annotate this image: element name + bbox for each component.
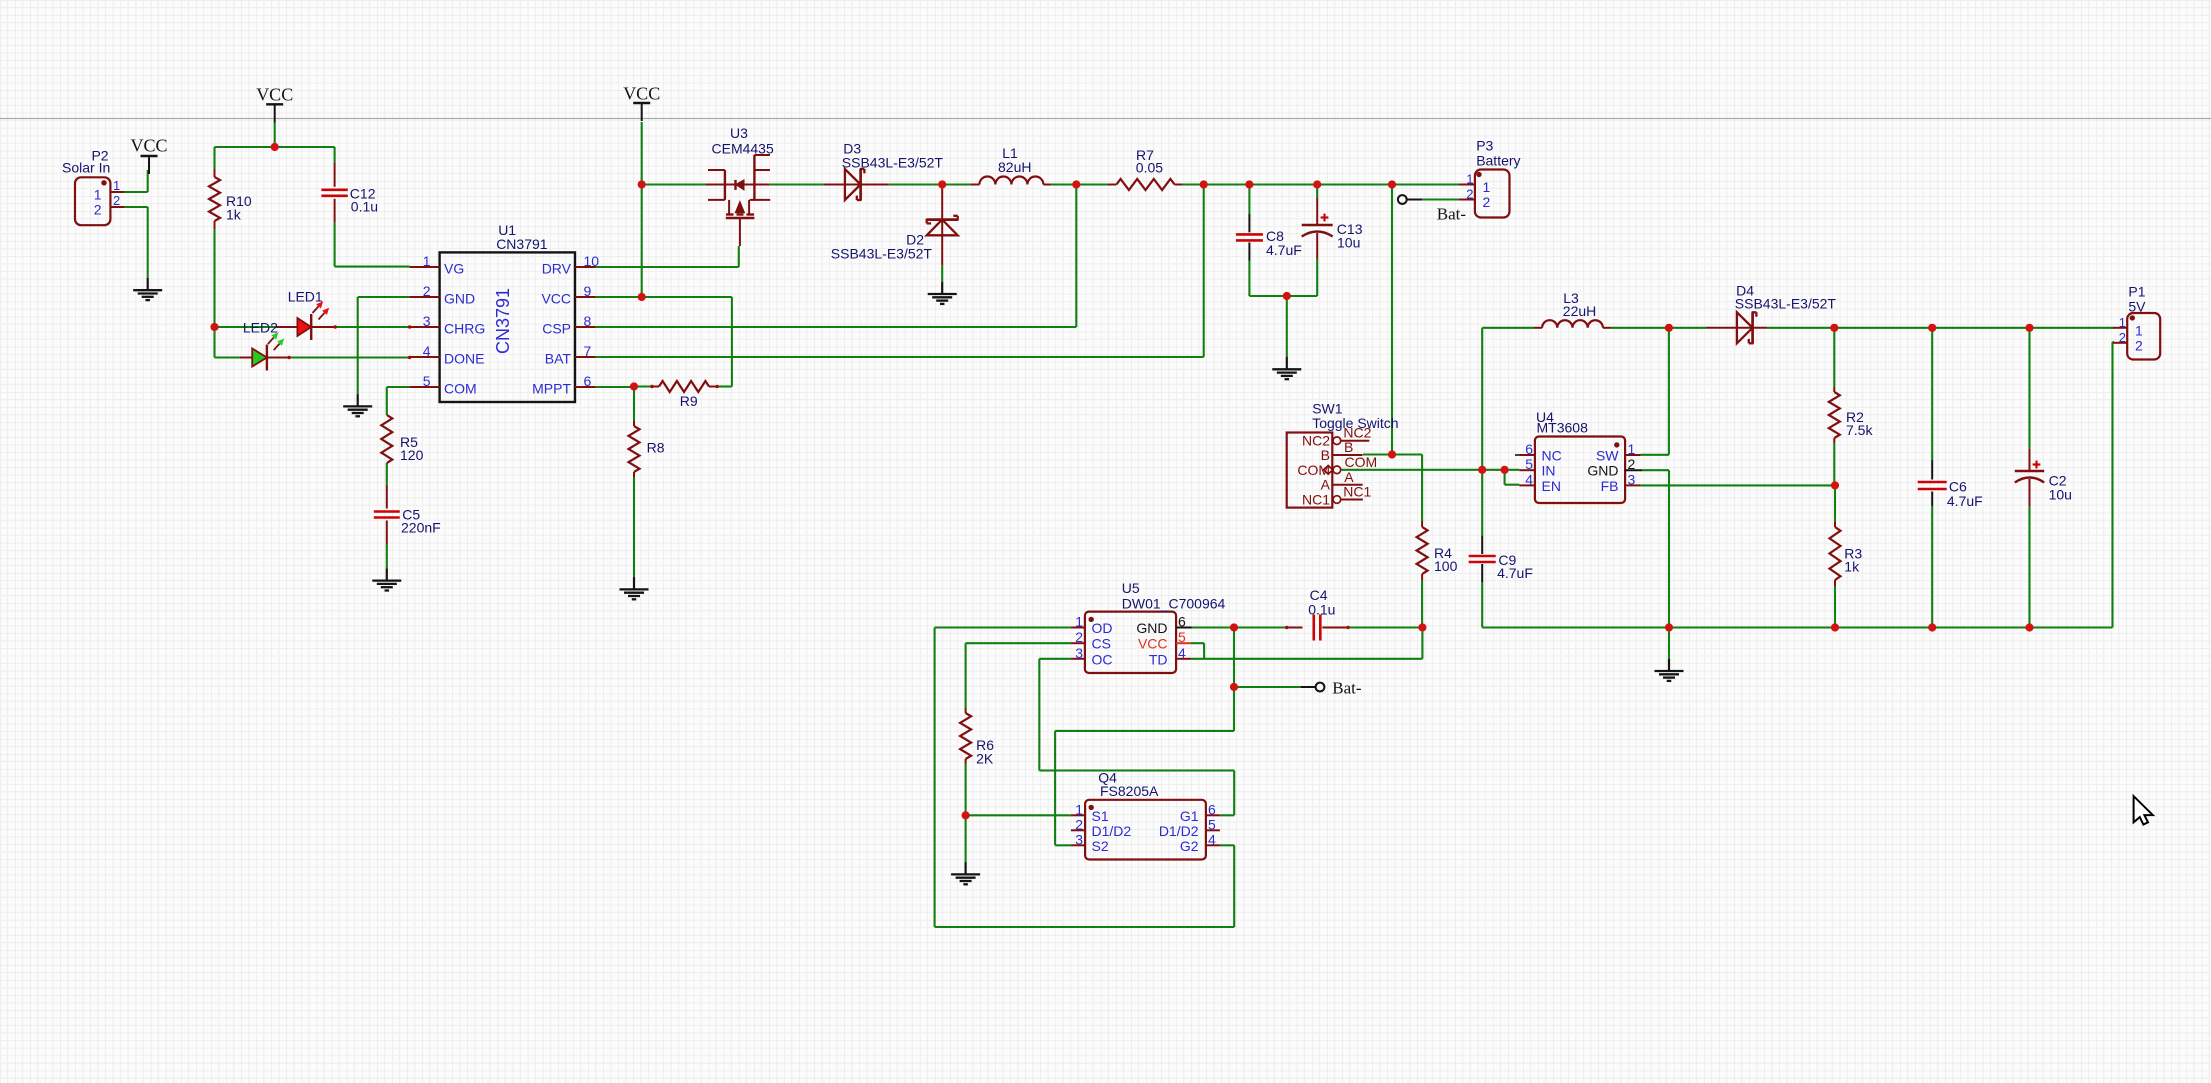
svg-text:5V: 5V	[2128, 299, 2146, 315]
svg-text:2: 2	[1628, 456, 1636, 472]
svg-text:IN: IN	[1542, 463, 1556, 479]
svg-text:1k: 1k	[226, 207, 242, 223]
svg-text:FB: FB	[1601, 478, 1619, 494]
svg-text:2: 2	[1075, 629, 1083, 645]
svg-text:6: 6	[584, 373, 592, 389]
svg-text:U5: U5	[1122, 580, 1140, 596]
svg-text:GND: GND	[1587, 463, 1618, 479]
svg-text:1: 1	[94, 187, 102, 203]
svg-text:3: 3	[1075, 831, 1083, 847]
svg-text:P1: P1	[2128, 284, 2145, 300]
svg-text:VG: VG	[444, 261, 464, 277]
svg-text:CSP: CSP	[542, 321, 571, 337]
svg-text:82uH: 82uH	[998, 159, 1031, 175]
svg-text:6: 6	[1525, 441, 1533, 457]
svg-text:TD: TD	[1149, 651, 1168, 667]
svg-text:2: 2	[113, 193, 120, 208]
svg-text:Toggle Switch: Toggle Switch	[1312, 415, 1398, 431]
svg-text:SW: SW	[1596, 448, 1619, 464]
svg-text:2: 2	[1075, 816, 1083, 832]
svg-text:DRV: DRV	[542, 261, 572, 277]
svg-text:B: B	[1344, 439, 1353, 455]
svg-text:6: 6	[1178, 614, 1186, 630]
svg-text:5: 5	[423, 373, 431, 389]
svg-text:CS: CS	[1092, 636, 1111, 652]
svg-text:COM: COM	[444, 381, 477, 397]
svg-text:U3: U3	[730, 125, 748, 141]
svg-text:P3: P3	[1476, 138, 1493, 154]
svg-text:COM: COM	[1297, 462, 1330, 478]
svg-text:FS8205A: FS8205A	[1100, 783, 1159, 799]
svg-text:10u: 10u	[1337, 235, 1360, 251]
svg-text:MT3608: MT3608	[1537, 420, 1589, 436]
svg-text:VCC: VCC	[623, 84, 660, 104]
svg-text:CN3791: CN3791	[496, 236, 548, 252]
svg-text:S2: S2	[1092, 838, 1109, 854]
svg-text:10: 10	[584, 253, 600, 269]
svg-text:OD: OD	[1092, 620, 1113, 636]
svg-text:0.1u: 0.1u	[351, 199, 378, 215]
svg-text:2: 2	[94, 202, 102, 218]
svg-text:8: 8	[584, 313, 592, 329]
svg-text:NC1: NC1	[1343, 484, 1371, 500]
svg-text:DW01_C700964: DW01_C700964	[1122, 596, 1226, 612]
svg-text:S1: S1	[1092, 808, 1109, 824]
svg-text:2: 2	[423, 283, 431, 299]
svg-text:MPPT: MPPT	[532, 381, 571, 397]
svg-text:SSB43L-E3/52T: SSB43L-E3/52T	[842, 155, 944, 171]
svg-text:4.7uF: 4.7uF	[1497, 565, 1533, 581]
svg-text:GND: GND	[1136, 620, 1167, 636]
svg-text:2: 2	[1466, 187, 1473, 202]
svg-text:Bat-: Bat-	[1332, 679, 1362, 698]
svg-text:0.05: 0.05	[1136, 160, 1163, 176]
svg-text:5: 5	[1208, 816, 1216, 832]
svg-text:1: 1	[423, 253, 431, 269]
svg-text:7.5k: 7.5k	[1846, 422, 1873, 438]
svg-text:COM: COM	[1345, 454, 1378, 470]
svg-text:SSB43L-E3/52T: SSB43L-E3/52T	[1735, 296, 1837, 312]
svg-text:2: 2	[1483, 194, 1491, 210]
svg-text:1k: 1k	[1844, 559, 1860, 575]
svg-text:VCC: VCC	[541, 291, 571, 307]
svg-text:6: 6	[1208, 801, 1216, 817]
svg-text:0.1u: 0.1u	[1308, 602, 1335, 618]
svg-text:NC: NC	[1542, 448, 1562, 464]
svg-text:4: 4	[1525, 471, 1533, 487]
svg-text:1: 1	[2119, 315, 2126, 330]
svg-text:BAT: BAT	[545, 351, 572, 367]
svg-text:CHRG: CHRG	[444, 321, 485, 337]
svg-text:4.7uF: 4.7uF	[1947, 493, 1983, 509]
svg-text:1: 1	[1075, 801, 1083, 817]
svg-text:DONE: DONE	[444, 351, 484, 367]
svg-text:2K: 2K	[976, 751, 994, 767]
svg-text:4.7uF: 4.7uF	[1266, 242, 1302, 258]
svg-text:GND: GND	[444, 291, 475, 307]
svg-text:OC: OC	[1092, 651, 1113, 667]
svg-text:VCC: VCC	[256, 85, 293, 105]
svg-text:CEM4435: CEM4435	[712, 141, 774, 157]
svg-text:1: 1	[113, 178, 120, 193]
svg-text:1: 1	[1466, 172, 1473, 187]
svg-text:Bat-: Bat-	[1437, 205, 1467, 224]
svg-text:4: 4	[423, 343, 431, 359]
svg-text:7: 7	[584, 343, 592, 359]
svg-text:3: 3	[1628, 471, 1636, 487]
svg-text:120: 120	[400, 447, 424, 463]
svg-text:3: 3	[423, 313, 431, 329]
svg-text:VCC: VCC	[130, 136, 167, 156]
svg-text:Battery: Battery	[1476, 152, 1520, 168]
svg-text:5: 5	[1525, 456, 1533, 472]
svg-text:SSB43L-E3/52T: SSB43L-E3/52T	[831, 246, 933, 262]
svg-text:G2: G2	[1180, 838, 1199, 854]
svg-text:NC1: NC1	[1302, 492, 1330, 508]
svg-text:10u: 10u	[2049, 487, 2072, 503]
svg-text:LED1: LED1	[288, 289, 323, 305]
svg-text:VCC: VCC	[1138, 636, 1168, 652]
svg-text:4: 4	[1208, 831, 1216, 847]
svg-text:A: A	[1321, 477, 1331, 493]
svg-text:EN: EN	[1542, 478, 1561, 494]
svg-text:G1: G1	[1180, 808, 1199, 824]
svg-text:R9: R9	[680, 393, 698, 409]
svg-text:1: 1	[1075, 614, 1083, 630]
svg-text:CN3791: CN3791	[493, 288, 513, 354]
svg-text:1: 1	[1483, 179, 1491, 195]
svg-text:22uH: 22uH	[1563, 303, 1596, 319]
svg-text:1: 1	[2135, 323, 2143, 339]
svg-text:LED2: LED2	[243, 320, 278, 336]
svg-text:9: 9	[584, 283, 592, 299]
svg-text:A: A	[1344, 469, 1354, 485]
svg-text:3: 3	[1075, 645, 1083, 661]
svg-text:2: 2	[2119, 330, 2126, 345]
svg-text:220nF: 220nF	[401, 520, 441, 536]
svg-text:D1/D2: D1/D2	[1159, 823, 1199, 839]
svg-text:R8: R8	[647, 440, 665, 456]
svg-text:100: 100	[1434, 558, 1458, 574]
svg-text:D1/D2: D1/D2	[1092, 823, 1132, 839]
svg-text:Solar In: Solar In	[62, 160, 110, 176]
svg-text:B: B	[1321, 447, 1330, 463]
svg-text:5: 5	[1178, 629, 1186, 645]
svg-text:1: 1	[1628, 441, 1636, 457]
svg-text:4: 4	[1178, 645, 1186, 661]
svg-text:2: 2	[2135, 338, 2143, 354]
